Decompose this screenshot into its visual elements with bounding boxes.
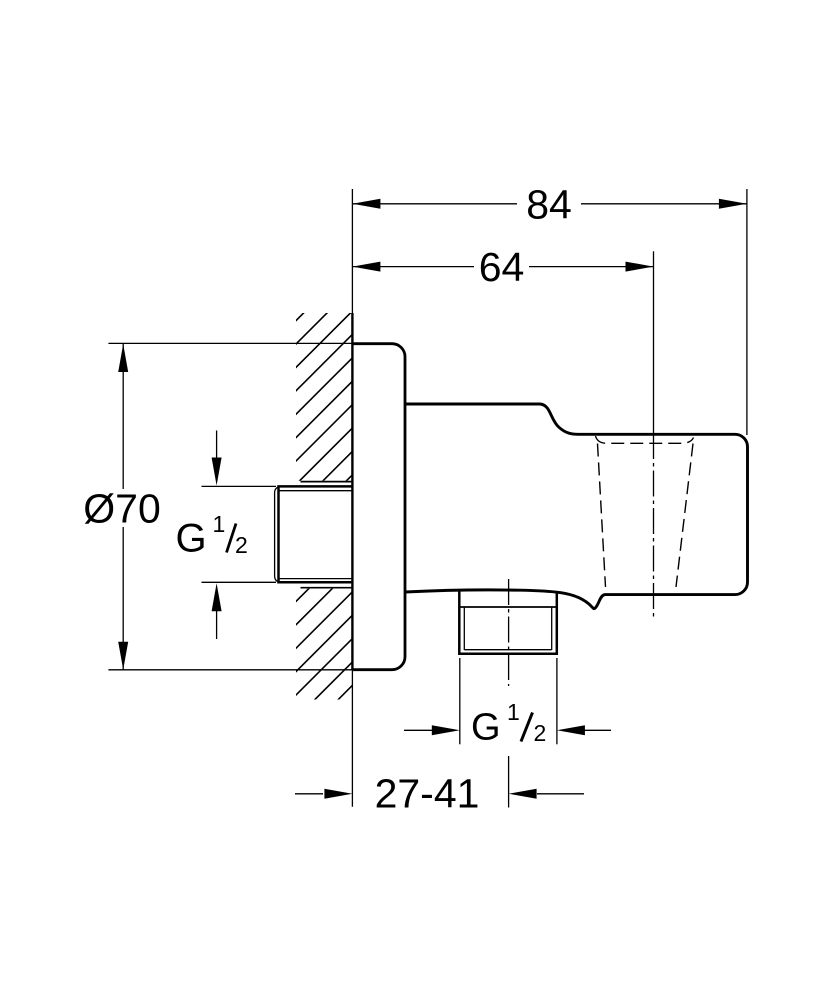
svg-text:2: 2	[235, 532, 248, 558]
outlet G1/2 text	[471, 699, 546, 749]
dim 64 line	[352, 266, 653, 268]
dim 27-41 arrows	[295, 793, 584, 795]
flange (escutcheon) outline	[352, 344, 405, 670]
inlet thread (back) outline	[279, 486, 353, 582]
svg-text:G: G	[471, 707, 501, 749]
svg-text:64: 64	[479, 244, 525, 290]
holder cone left dashed line	[598, 444, 606, 588]
dim O70 arrows	[118, 344, 128, 372]
dim 84 extension right	[746, 189, 748, 435]
inlet thread minor lines	[278, 491, 353, 579]
dim 64 arrows	[352, 262, 380, 272]
wall hole edge top	[301, 481, 353, 483]
dim O70 extension bottom	[108, 669, 352, 671]
inlet G1/2 extension lines	[202, 486, 277, 582]
svg-text:27-41: 27-41	[375, 771, 480, 817]
dim O70 line	[122, 344, 124, 670]
wall hatching	[273, 262, 355, 765]
inlet thread end cap thin outline	[275, 486, 281, 582]
outlet shoulder line	[459, 606, 557, 608]
svg-text:2: 2	[534, 720, 547, 746]
inlet G1/2 text	[176, 511, 248, 561]
svg-text:1: 1	[213, 511, 226, 537]
outlet G1/2 arrows	[404, 729, 611, 731]
outlet centerline	[508, 579, 510, 808]
outlet thread minor lines	[464, 608, 551, 651]
outlet G1/2 extension lines	[460, 658, 557, 744]
wall hole edge bottom	[301, 587, 353, 589]
holder cone right dashed line	[676, 444, 693, 588]
dim 84 line	[352, 203, 747, 205]
dim 84 arrows	[352, 199, 380, 209]
body outline top	[405, 404, 748, 609]
holder cone hidden rim (dashed)	[596, 436, 694, 443]
dim O70 extension top	[108, 342, 352, 344]
svg-text:Ø70: Ø70	[83, 485, 161, 531]
inlet G1/2 arrows	[216, 431, 218, 640]
svg-text:1: 1	[507, 699, 520, 725]
outlet pipe outline	[459, 591, 557, 654]
svg-text:G: G	[176, 517, 207, 561]
svg-text:84: 84	[526, 182, 572, 228]
cone centerline / 64 extension	[653, 251, 655, 616]
wall face line	[351, 189, 353, 807]
